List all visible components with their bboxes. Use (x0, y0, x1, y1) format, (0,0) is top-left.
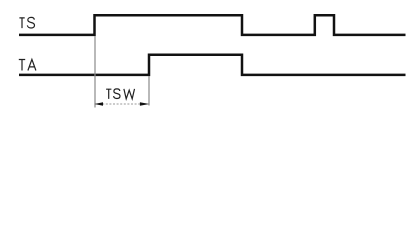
dimension line TSW (dotted) (95, 103, 149, 105)
signal label TA (19, 59, 36, 70)
wire: TS waveform (low, rise, high, fall, low, pulse, low) (19, 15, 406, 35)
left arrowhead of TSW dimension (94, 102, 103, 106)
right arrowhead of TSW dimension (140, 102, 150, 106)
dimension extension line from TS rising edge (94, 36, 96, 108)
signal label TS (19, 17, 34, 28)
dimension extension line from TA rising edge (148, 76, 150, 106)
wire: TA waveform (low, rise, high, fall, low) (19, 55, 406, 75)
dimension label TSW (106, 89, 134, 99)
